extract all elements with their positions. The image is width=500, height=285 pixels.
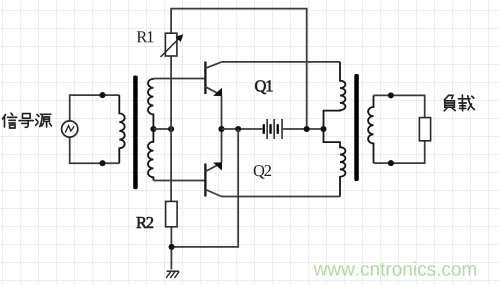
wire ground return [172, 129, 239, 247]
node top of source loop [99, 92, 105, 98]
resistor RL load [419, 118, 430, 141]
battery BT1 [263, 119, 283, 139]
node bias junction [168, 126, 174, 132]
wire top bias rail [171, 9, 307, 129]
watermark [314, 262, 476, 276]
node load bottom [388, 160, 394, 166]
ground [166, 271, 179, 278]
transformer T1 secondary winding [148, 79, 153, 181]
wire load loop top [374, 95, 425, 117]
node bottom of source loop [99, 160, 105, 166]
resistor R1 [161, 33, 184, 57]
node ground junction [169, 244, 175, 250]
wire battery to center tap [283, 128, 324, 130]
wire R1 to bias junction [170, 56, 172, 201]
wire Q1 collector to T2 [222, 61, 340, 63]
label 信号源 (signal source) [3, 113, 52, 128]
transformer T2 secondary winding [368, 95, 373, 163]
label Q1 [255, 80, 272, 94]
wire R2 to ground [170, 227, 172, 270]
transformer T2 primary winding lower [324, 129, 346, 197]
wire Q2 emitter up [221, 129, 223, 163]
label R1 [137, 31, 154, 42]
transformer T2 primary winding upper [324, 62, 346, 129]
node load top [388, 92, 394, 98]
wire signal source loop [70, 95, 120, 163]
node ground branch [235, 126, 241, 132]
label R2 [137, 217, 154, 228]
wire Q1 base [153, 78, 205, 80]
AC source [62, 121, 78, 137]
transformer T2 core [354, 74, 359, 181]
transistor Q1 [205, 62, 222, 97]
transformer T1 core [133, 76, 138, 190]
wire load loop bottom [374, 141, 425, 163]
transistor Q2 [205, 162, 222, 196]
wire Q1 emitter down [221, 96, 223, 130]
node T1 center tap [150, 126, 156, 132]
transformer T1 primary winding [119, 95, 124, 163]
node T2 center tap [320, 126, 326, 132]
node emitter junction [218, 126, 224, 132]
label 负载 (load) [444, 95, 474, 111]
wire Q2 base [153, 180, 205, 182]
resistor R2 [166, 201, 178, 226]
wire center tap to bias divider [153, 128, 171, 130]
node B+ rail [304, 126, 310, 132]
label Q2 [254, 165, 271, 179]
wire emitters to battery [222, 128, 263, 130]
wire Q2 collector to T2 [222, 196, 341, 198]
